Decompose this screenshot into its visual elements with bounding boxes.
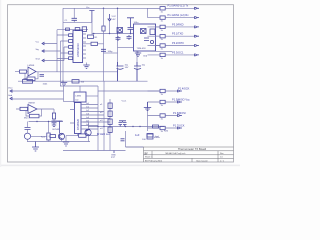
capacitor C5 bbox=[52, 121, 57, 126]
ground GND5 bbox=[32, 142, 39, 152]
svg-text:Thermometer TX Board: Thermometer TX Board bbox=[178, 147, 207, 151]
page shadow bottom bbox=[0, 165, 240, 167]
crystal X1 bbox=[69, 34, 73, 60]
TX module inner coil bbox=[144, 38, 154, 44]
wire y53 bbox=[104, 52, 118, 54]
wire y121.5 bottom left bbox=[29, 121, 64, 123]
resistor RT3 bbox=[148, 25, 195, 28]
power flag PWR1 bbox=[108, 14, 111, 21]
resistor RB1 bbox=[148, 89, 178, 92]
VCC T bottom mid bbox=[119, 121, 126, 123]
op-amp U3 bbox=[28, 105, 37, 114]
resistor RT6 bbox=[148, 53, 195, 56]
VCC symbol bbox=[89, 11, 94, 23]
junction dot top rail a bbox=[103, 8, 105, 10]
resistor R13 input bbox=[15, 70, 28, 73]
resistor R3 vertical bbox=[102, 8, 105, 81]
title block outline bbox=[126, 147, 234, 162]
wire cap branch x74.25 bbox=[73, 8, 75, 22]
IC1 left pins bbox=[57, 35, 68, 59]
TX module M1 bbox=[134, 24, 156, 51]
junction dot top rail b bbox=[117, 8, 119, 10]
wire mic to R23 bbox=[31, 135, 47, 137]
capacitor C7 electrolytic bbox=[134, 62, 141, 81]
resistor R23 vertical bbox=[47, 122, 50, 142]
svg-text:Vcc1: Vcc1 bbox=[122, 100, 128, 102]
wire stub left connector3 bbox=[44, 47, 64, 61]
wire bus x104 bbox=[103, 81, 105, 150]
wire Q2 collector bbox=[83, 122, 89, 129]
capacitor C1 bbox=[72, 18, 78, 20]
svg-text:P1.6/MOSI: P1.6/MOSI bbox=[173, 111, 186, 115]
wire rail y91 right bbox=[98, 90, 160, 92]
wire sensor feed y86 bbox=[60, 85, 98, 87]
wire stub left connector2 bbox=[44, 41, 61, 86]
sheet border frame bbox=[8, 5, 234, 162]
resistor R19 bbox=[108, 103, 112, 108]
connector J4 pin bbox=[10, 90, 12, 92]
svg-text:P3.3/OC1: P3.3/OC1 bbox=[172, 50, 184, 54]
wire rail y81.2 bbox=[18, 80, 148, 82]
svg-text:P1.0/AIN0 (L1) Tx: P1.0/AIN0 (L1) Tx bbox=[168, 4, 189, 8]
connector pin RBP2 bbox=[178, 101, 183, 103]
sensor right pin bbox=[86, 95, 98, 97]
resistor R28 on y29.7 bbox=[75, 28, 80, 31]
resistor R20 bbox=[108, 111, 112, 116]
resistor R17 divider bbox=[52, 109, 55, 121]
wire bus x98 bbox=[97, 86, 99, 151]
VCC T bottom bbox=[57, 121, 63, 133]
connector J2 pin bbox=[42, 50, 44, 52]
svg-text:AT90S2313: AT90S2313 bbox=[76, 43, 80, 57]
page shadow left bbox=[0, 0, 1, 167]
ground GND3 on rail bbox=[144, 102, 151, 111]
resistor R22 bbox=[108, 127, 112, 132]
transistor Q2 bbox=[85, 129, 91, 142]
svg-text:Gary Causer: Gary Causer bbox=[196, 160, 208, 163]
svg-text:P1.5/MISO Vcc: P1.5/MISO Vcc bbox=[172, 97, 190, 101]
connector J3 pin bbox=[42, 59, 44, 61]
IC U5 vertical bbox=[75, 103, 82, 134]
wire opamp1 output bbox=[36, 71, 118, 73]
wire mid rail y33.5 bbox=[92, 33, 134, 35]
resistor RT2 bbox=[148, 16, 195, 19]
TX module inner comp bbox=[150, 29, 155, 35]
svg-text:LM35: LM35 bbox=[76, 96, 82, 98]
wire cap feed y22.4 bbox=[63, 21, 92, 23]
connector pin RBP1 bbox=[178, 90, 183, 92]
junction dot rail2 bbox=[130, 33, 132, 35]
wire vcc stem x92 bbox=[91, 22, 93, 33]
svg-text:MF-AV-TxE Proj1.sch: MF-AV-TxE Proj1.sch bbox=[166, 152, 187, 155]
ground GND4 bbox=[63, 142, 69, 146]
svg-text:LM358: LM358 bbox=[28, 65, 35, 67]
connector pin RTP3 bbox=[195, 26, 200, 28]
wire opamp2 output bbox=[37, 108, 54, 110]
wire stub left connector1 bbox=[44, 30, 57, 72]
svg-text:Sheet: 1: Sheet: 1 bbox=[145, 156, 153, 159]
resistor R16 feedback bbox=[26, 109, 42, 118]
svg-text:A4: A4 bbox=[145, 153, 147, 156]
wire y47.5 bbox=[118, 47, 134, 49]
connector pin RTP2 bbox=[195, 16, 200, 18]
resistor RB5 cluster bbox=[147, 134, 153, 138]
capacitor C4 bbox=[40, 75, 45, 77]
ground GND1 bbox=[83, 34, 87, 65]
wire vertical x63.5 bbox=[63, 86, 65, 99]
svg-text:VCC: VCC bbox=[112, 16, 117, 18]
wire power flag down bbox=[109, 21, 111, 34]
resistor R29 on rail bbox=[72, 80, 79, 83]
resistor R21 bbox=[108, 119, 112, 124]
svg-text:BC549: BC549 bbox=[53, 129, 60, 131]
junction dots y126.5 bbox=[97, 126, 98, 127]
svg-text:100p: 100p bbox=[108, 51, 114, 53]
resistor R25 bbox=[66, 134, 98, 142]
resistor R1 bbox=[88, 34, 94, 39]
svg-text:+3V: +3V bbox=[112, 19, 116, 21]
svg-text:IR LED out: IR LED out bbox=[97, 132, 110, 136]
resistor R14 feedback bbox=[25, 72, 38, 81]
wire module out y51.5 bbox=[151, 50, 173, 52]
ground GND2 module bbox=[135, 53, 141, 57]
op-amp U2 bbox=[28, 67, 36, 76]
TX module inner crystal bbox=[141, 29, 147, 34]
svg-text:Mic1: Mic1 bbox=[24, 118, 29, 120]
svg-text:Rev: Rev bbox=[220, 153, 224, 155]
connector pin RBP4 bbox=[178, 127, 183, 129]
capacitor C13 below rail bbox=[127, 35, 132, 40]
wire left edge vertical x63 bbox=[62, 8, 64, 80]
capacitor C14 bbox=[123, 123, 127, 127]
svg-text:DS18S20: DS18S20 bbox=[76, 118, 80, 130]
junction dot rail3 bbox=[93, 33, 95, 35]
sensor box U4 bbox=[74, 92, 86, 102]
connector pin RTP4 bbox=[195, 35, 200, 37]
svg-text:P3.0/RXD: P3.0/RXD bbox=[172, 22, 184, 26]
wire vertical x147.5 bbox=[147, 8, 149, 131]
wire y141.5 bbox=[27, 141, 90, 143]
connector J1 pin bbox=[42, 42, 44, 44]
capacitor C6 electrolytic bbox=[117, 62, 124, 81]
svg-text:P1.1/AIN1 (L2) Rx: P1.1/AIN1 (L2) Rx bbox=[168, 13, 190, 17]
resistor R15 input bbox=[16, 107, 28, 110]
resistor RB3 bbox=[148, 114, 178, 117]
capacitor C8 on x103.5 bbox=[101, 49, 106, 51]
connector pin RTP6 bbox=[195, 54, 200, 56]
capacitor C11 bbox=[121, 139, 125, 141]
wire vertical x117.5 bbox=[117, 8, 119, 81]
wire U5 left pin bbox=[70, 110, 78, 136]
resistor RT1 bbox=[148, 7, 195, 10]
wire rail y91 left bbox=[12, 90, 64, 92]
diode D3 on y29.7 bbox=[82, 27, 86, 32]
connector pin RTP5 bbox=[195, 44, 200, 46]
wire bus x110 bbox=[109, 99, 111, 151]
wire vertical x137 bbox=[136, 51, 138, 81]
wire VCC rail top bbox=[63, 7, 160, 9]
svg-text:P3.1/TXD: P3.1/TXD bbox=[172, 32, 183, 36]
diode D2 on wire bbox=[153, 125, 159, 128]
svg-text:TXM-418: TXM-418 bbox=[137, 48, 147, 50]
svg-text:LM358: LM358 bbox=[28, 103, 35, 105]
svg-text:P3.2/INT0: P3.2/INT0 bbox=[172, 41, 184, 45]
crystal X2 bbox=[117, 28, 123, 34]
capacitor C3 bbox=[128, 28, 134, 34]
connector J6 below bbox=[113, 151, 115, 154]
crystal X3 bbox=[147, 134, 153, 139]
resistor R24 base bbox=[49, 135, 56, 138]
U5 right pin wires bbox=[81, 105, 110, 130]
ground GND1 bars bbox=[83, 65, 89, 68]
svg-text:8th February 2002: 8th February 2002 bbox=[145, 160, 163, 163]
resistor RT4 bbox=[148, 35, 195, 38]
op-amp U1 (IC1 MCU) bbox=[73, 30, 83, 62]
resistor RB2 bbox=[148, 100, 178, 103]
module pin wires bbox=[138, 27, 160, 53]
svg-text:4MHz: 4MHz bbox=[154, 137, 160, 139]
svg-text:1uF: 1uF bbox=[135, 133, 140, 137]
svg-text:Vout: Vout bbox=[8, 87, 13, 90]
connector pin RTP1 bbox=[195, 7, 200, 9]
transistor Q1 bbox=[58, 133, 64, 141]
ground GND6 under rail bbox=[61, 81, 67, 86]
VCC T symbol with cap C3 bbox=[127, 18, 134, 28]
wire vertical x125.5 bbox=[125, 131, 127, 147]
svg-text:16V: 16V bbox=[125, 67, 129, 69]
resistor RT5 bbox=[148, 44, 195, 47]
connector J5 pin bbox=[10, 97, 12, 99]
junction dot rail1 bbox=[117, 33, 119, 35]
capacitor C12 below rail bbox=[116, 36, 121, 41]
junction dots y121.5 bbox=[36, 121, 37, 122]
resistor R2 bbox=[83, 42, 104, 45]
resistor R27 on y29.7 bbox=[66, 28, 70, 31]
electret MIC1 bbox=[24, 122, 30, 142]
wire pre-IC y29.7 bbox=[57, 29, 88, 31]
wire y126.5 bottom middle bbox=[88, 126, 164, 128]
wire to title block y147 bbox=[126, 146, 144, 148]
sensor stub bbox=[79, 86, 81, 92]
resistor R18 on rail y82 bbox=[23, 80, 33, 84]
wire rail y99 left bbox=[12, 99, 74, 102]
wire y150.5 bbox=[63, 150, 126, 152]
resistor RB4 bbox=[148, 126, 178, 129]
capacitor C10 bbox=[119, 123, 123, 127]
svg-text:P1.4/SCK: P1.4/SCK bbox=[178, 86, 190, 90]
svg-text:P1.7/UCK: P1.7/UCK bbox=[173, 123, 185, 127]
connector pin RBP3 bbox=[178, 114, 183, 116]
